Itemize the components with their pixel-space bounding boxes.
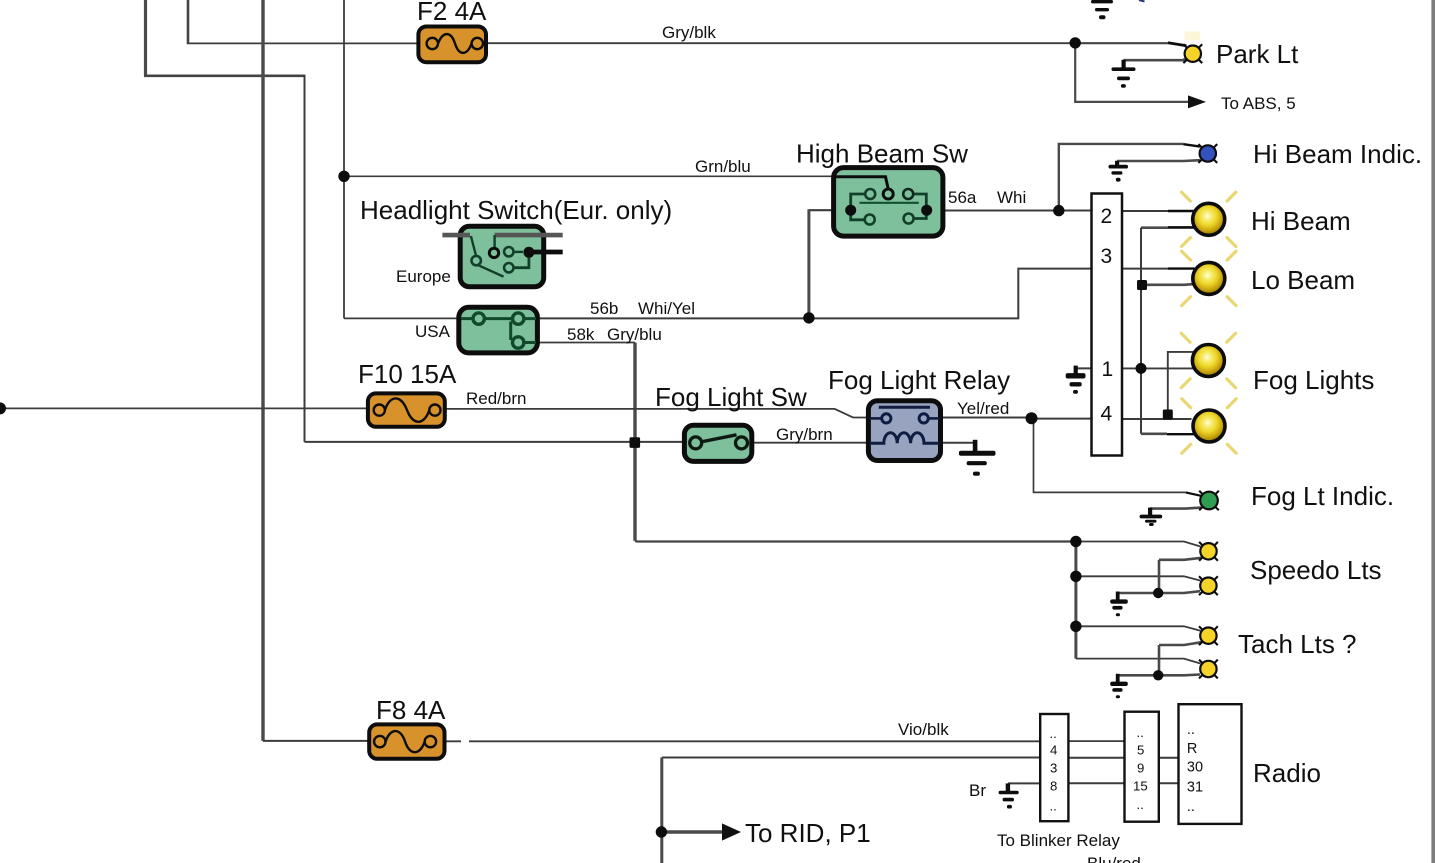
ground Fog Lt Indic (1140, 508, 1163, 526)
wire: speedo ground bus y=593 (1117, 591, 1200, 593)
wire: junction to Park Lt lamp (1075, 42, 1168, 44)
svg-text:Gry/brn: Gry/brn (776, 425, 833, 444)
svg-text:8: 8 (1050, 779, 1057, 794)
wire: left feed vertical x=145 from top (144, 0, 147, 76)
svg-text:1: 1 (1102, 358, 1114, 381)
junction dot tach ground (1153, 670, 1163, 680)
junction dot Yel/red tap (1026, 412, 1038, 424)
wire 56a Whi: High Beam Sw to connector pin 2 (942, 210, 1093, 212)
wire: vertical x=188 from top to F2 wire (187, 0, 190, 43)
svg-text:USA: USA (415, 322, 451, 341)
svg-text:Yel/red: Yel/red (957, 399, 1009, 418)
indicator Fog Lt Indic (1199, 491, 1219, 511)
ground Speedo (1110, 592, 1128, 617)
junction square fog switch feed (630, 437, 641, 448)
fuse F2 4A (418, 27, 486, 63)
wire: Hi Beam lamp top black stub (1168, 210, 1194, 213)
fuse F10 15A (368, 393, 445, 426)
svg-text:Park Lt: Park Lt (1216, 39, 1299, 69)
svg-text:..: .. (1187, 722, 1195, 738)
right edge bar (1431, 0, 1435, 863)
wire: drop from Yel/red junction to Fog Lt Indic (1034, 419, 1186, 493)
svg-text:Speedo Lts: Speedo Lts (1250, 555, 1382, 585)
wire Gry/brn: Fog Light Sw to relay coil (751, 442, 870, 444)
wire: connector pin 3 to Lo Beam lamp (1121, 268, 1168, 270)
svg-text:..: .. (1137, 725, 1144, 740)
ground Park Lt (1112, 60, 1136, 88)
wire: to ABS drop and arrow line (1075, 43, 1189, 102)
switch: Headlight Switch Europe (442, 226, 562, 286)
svg-text:4: 4 (1050, 743, 1057, 758)
svg-text:..: .. (1187, 799, 1195, 815)
svg-text:3: 3 (1050, 761, 1057, 776)
wire: connector pin 1 to Fog1 lamp bottom (1093, 367, 1194, 369)
wire: Fog Lt Indic bottom terminal to ground (1150, 508, 1201, 509)
wire: Park Lt black terminal stub top (1168, 43, 1187, 46)
svg-text:To RID, P1: To RID, P1 (745, 818, 871, 848)
indicator Hi Beam Indic (1198, 144, 1217, 163)
svg-text:To ABS, 5: To ABS, 5 (1221, 94, 1296, 113)
wire: horizontal y=741 into fuse F8 (263, 740, 370, 742)
svg-text:To Blinker Relay: To Blinker Relay (997, 831, 1120, 850)
wire: thick vertical x=635 down (633, 343, 636, 541)
wire: Hi Beam Indic top terminal stub (1184, 144, 1201, 146)
wire: vertical x=344 from top to USA switch feed (343, 0, 345, 318)
radio connector block2 (1125, 712, 1159, 822)
wire: horizontal into fuse F2 (187, 42, 419, 44)
wire Grn/blu: junction x=344 to High Beam Sw (344, 175, 835, 177)
indicator Tach lamp 2 (1199, 660, 1218, 679)
svg-text:Radio: Radio (1253, 758, 1321, 788)
wire: Br ground row to radio block1 (1008, 782, 1041, 784)
svg-text:Fog Light Relay: Fog Light Relay (828, 365, 1010, 395)
ground connector pin 1 (1066, 366, 1086, 394)
wire: horizontal y=442 from x=304 to Fog Light Sw (305, 441, 686, 443)
top edge mark (1139, 0, 1145, 2)
radio block3 (1179, 704, 1242, 824)
wire Red/brn: left edge to fuse F10 (0, 407, 369, 409)
wire: Hi Beam Indic bottom terminal to ground (1117, 159, 1200, 162)
lamp rays Fog1 (1181, 333, 1235, 387)
junction dot To RID (656, 826, 667, 837)
wire: speedo lamp2 feed (1076, 576, 1201, 580)
svg-text:30: 30 (1187, 760, 1203, 776)
indicator Tach lamp 1 (1199, 626, 1218, 645)
wire: speedo return vertical x=1159 (1158, 560, 1161, 593)
radio connector block1 (1040, 714, 1068, 821)
indicator Park Lt (1183, 32, 1202, 64)
wire: Fog Lt Indic top terminal stub (1186, 492, 1201, 495)
svg-text:Grn/blu: Grn/blu (695, 157, 751, 176)
svg-text:F10 15A: F10 15A (358, 359, 457, 389)
junction dot 56b tap (803, 312, 814, 323)
junction dot Park Lt tap (1070, 37, 1081, 48)
wire: connector pin 4 to Fog2 lamp top (1121, 418, 1192, 420)
svg-text:Br: Br (969, 781, 986, 800)
switch: Headlight Switch USA (459, 307, 538, 353)
svg-text:..: .. (1050, 799, 1057, 814)
svg-text:31: 31 (1187, 780, 1203, 796)
lamp Fog2 (1193, 410, 1225, 442)
svg-text:56b: 56b (590, 299, 618, 318)
svg-text:3: 3 (1101, 245, 1113, 268)
wire: vertical x=1141 lamp return bus (1140, 228, 1142, 434)
svg-text:58k: 58k (567, 325, 595, 344)
wire: block2 to block3 row y=783 (1158, 782, 1179, 784)
svg-text:5: 5 (1137, 743, 1144, 758)
wire Red/brn: fuse F10 to Fog Light Relay (444, 409, 870, 418)
wire: thick vertical x=263 from top down to F8 (261, 0, 264, 741)
svg-text:Blu/red: Blu/red (1087, 854, 1141, 863)
junction dot lamp return bus (1136, 363, 1147, 374)
wire: Park Lt bottom terminal to ground (1124, 58, 1188, 61)
switch: High Beam Sw (834, 168, 943, 237)
wire 56b Whi/Yel: USA switch to connector pin 3 (536, 269, 1093, 319)
wire: gray segment Hi Beam bottom to x=1141 (1141, 226, 1168, 229)
wire: junction x=1059 up to Hi Beam Indic (1059, 144, 1184, 211)
svg-text:Fog Lights: Fog Lights (1253, 365, 1374, 395)
svg-text:Hi Beam: Hi Beam (1251, 206, 1351, 236)
wire: Lo Beam bottom terminal to square junction (1147, 283, 1196, 286)
wire: y=757.5 row from x=662 to radio connector (662, 757, 1041, 759)
junction square Fog pin4 (1163, 410, 1173, 420)
wire: x=1141 bottom corner to Fog2 lamp bottom (1141, 432, 1167, 435)
svg-text:Whi/Yel: Whi/Yel (638, 299, 695, 318)
wire: tach return vertical x=1159 (1158, 645, 1161, 675)
wire: thick vertical x=662 to bottom edge (660, 758, 663, 863)
ground Br (999, 783, 1019, 808)
ground Hi Beam Indic (1109, 161, 1129, 182)
indicator Speedo lamp 1 (1199, 542, 1218, 561)
wire: horizontal y=541 to speedo junction (635, 540, 1076, 543)
wire: Lo Beam top black stub (1168, 267, 1195, 269)
wire: thick vertical x=1076 speedo/tach feeds (1074, 542, 1077, 659)
svg-text:Whi: Whi (997, 188, 1026, 207)
wire: horizontal y=318 into USA switch (344, 317, 462, 319)
junction dot speedo ground (1153, 588, 1163, 598)
svg-text:Fog Lt Indic.: Fog Lt Indic. (1251, 481, 1394, 511)
wire: tach lamp2 feed (1076, 659, 1201, 664)
svg-text:F2 4A: F2 4A (417, 0, 487, 26)
svg-text:Hi Beam Indic.: Hi Beam Indic. (1253, 139, 1422, 169)
wire: Hi Beam lamp bottom terminal (1168, 226, 1194, 229)
lamp Hi Beam (1193, 203, 1225, 235)
wire: tach lamp1 bottom terminal (1159, 642, 1202, 645)
svg-text:High Beam Sw: High Beam Sw (796, 139, 968, 169)
wire: speedo lamp1 feed (1076, 542, 1201, 547)
junction half dot left edge (0, 402, 6, 414)
junction dot speedo feed 1 (1070, 536, 1081, 547)
relay: Fog Light Relay (868, 401, 940, 461)
wire Vio/blk: fuse F8 to radio connector (444, 740, 1041, 742)
arrow head To ABS (1188, 95, 1206, 108)
wire 58k Gry/blu: USA switch lower pin (536, 342, 635, 344)
wire: connector pin 2 to Hi Beam lamp (1121, 210, 1168, 212)
wire: Fog2 bottom black stub (1167, 433, 1195, 435)
lamp rays Fog2 (1182, 399, 1236, 453)
wire Yel/red: relay to connector pin 4 (940, 418, 1093, 419)
wire: block1 to block2 row y=783 (1068, 782, 1125, 784)
lamp rays Hi Beam (1182, 192, 1236, 246)
svg-text:Red/brn: Red/brn (466, 389, 526, 408)
junction dot Grn/blu tap (338, 171, 349, 182)
connector pin strip 2/3/1/4 (1092, 194, 1123, 456)
wire: block1 to block2 row y=758 (1068, 757, 1125, 759)
svg-text:..: .. (1050, 726, 1057, 741)
svg-text:56a: 56a (948, 188, 977, 207)
svg-text:Europe: Europe (396, 267, 451, 286)
svg-text:15: 15 (1133, 779, 1148, 794)
wire: vertical x=304 down to fog-switch feed (304, 75, 306, 442)
lamp rays Lo Beam (1182, 251, 1236, 305)
svg-text:..: .. (1137, 797, 1144, 812)
svg-text:F8 4A: F8 4A (376, 695, 446, 725)
svg-text:2: 2 (1101, 205, 1113, 228)
lamp Fog1 (1192, 345, 1224, 377)
svg-text:Fog Light Sw: Fog Light Sw (655, 382, 807, 412)
ground Tach (1110, 674, 1128, 698)
wire: To RID arrow line (662, 830, 724, 833)
svg-text:Vio/blk: Vio/blk (898, 720, 949, 739)
arrow head To RID (722, 823, 741, 840)
svg-text:4: 4 (1101, 403, 1113, 426)
fuse F8 4A (369, 724, 444, 758)
svg-text:Lo Beam: Lo Beam (1251, 265, 1355, 295)
wire: vertical drop x=809 to 56b wire (807, 209, 810, 318)
wire: High Beam Sw left stub (809, 209, 835, 211)
wire: relay coil right to ground (940, 442, 976, 444)
junction dot tach feed (1070, 621, 1081, 632)
lamp Lo Beam (1193, 262, 1225, 294)
wire: horizontal y=76 from x=145 to x=304 (144, 75, 305, 78)
wire: block1 to block2 row y=741 (1068, 740, 1125, 742)
wire: Fog1 top branch via x=1168 (1168, 352, 1194, 415)
svg-text:9: 9 (1137, 761, 1144, 776)
wire: tach ground bus y=675 (1117, 673, 1200, 676)
wire: tach lamp1 feed (1076, 626, 1201, 631)
junction square Lo Beam return (1137, 280, 1147, 290)
wire: speedo lamp1 bottom terminal (1159, 558, 1202, 560)
switch: Fog Light Sw (684, 425, 751, 461)
svg-text:R: R (1187, 741, 1197, 757)
indicator Speedo lamp 2 (1199, 576, 1218, 595)
ground partial top (1091, 0, 1113, 19)
junction dot Whi tap (1053, 205, 1064, 216)
wire Gry/blk: fuse F2 to Park Lt junction (485, 42, 1075, 44)
svg-text:Gry/blu: Gry/blu (607, 325, 662, 344)
svg-text:Headlight Switch(Eur. only): Headlight Switch(Eur. only) (360, 195, 672, 225)
svg-text:Tach Lts ?: Tach Lts ? (1238, 629, 1357, 659)
junction dot speedo feed 2 (1070, 571, 1081, 582)
wire: connector pin 1 ground stub (1076, 367, 1093, 369)
svg-text:Gry/blk: Gry/blk (662, 23, 716, 42)
ground Fog Light Relay (959, 440, 996, 476)
wire: block2 to block3 row y=758 (1158, 757, 1179, 759)
